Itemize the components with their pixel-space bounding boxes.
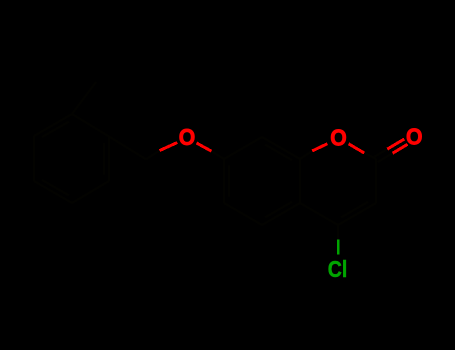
svg-text:Cl: Cl <box>328 256 348 282</box>
C3=C4 double bond <box>338 202 376 225</box>
C8a-O1 bond <box>300 151 312 159</box>
ether O-CH2 bond <box>160 143 178 151</box>
carbonyl C2=O second line <box>375 149 388 157</box>
C2-C3 bond <box>375 159 377 203</box>
C4-C4a bond <box>300 203 338 225</box>
benzylic CH2-C1' bond <box>109 137 146 160</box>
coumarin benzo ring C7-C8-C8a-C4a-C5-C6 <box>224 137 300 225</box>
C4-Cl bond <box>337 225 339 240</box>
svg-text:O: O <box>330 125 347 151</box>
methyl on phenyl ortho carbon <box>72 82 96 114</box>
O1-C2 bond <box>349 144 365 153</box>
svg-text:O: O <box>406 124 423 150</box>
ether O-C7 bond <box>197 143 212 151</box>
svg-text:O: O <box>179 124 196 150</box>
carbonyl C2=O main line <box>378 153 393 162</box>
phenyl ring C1'-C6' <box>34 114 109 203</box>
